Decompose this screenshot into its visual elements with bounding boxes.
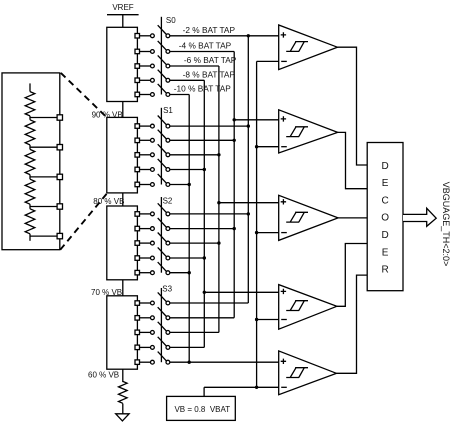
svg-text:C: C (381, 195, 388, 206)
wire (net -2% BAT TAP: S0 row to comparator U1 +) (170, 35, 279, 37)
tap square RB4-1 (135, 301, 151, 306)
wire (U3 output to decoder) (338, 217, 367, 219)
svg-text:S2: S2 (163, 196, 173, 205)
wire (net -6% to comparator U3 +) (219, 202, 279, 204)
tap terminal square (callout tap 1) (57, 115, 62, 120)
svg-text:-4 % BAT TAP: -4 % BAT TAP (179, 41, 232, 51)
tap square RB1-5 (135, 92, 151, 97)
svg-text:D: D (381, 230, 388, 241)
tap square RB4-5 (135, 360, 151, 365)
wire (net -6% BAT TAP: S2 row 3) (170, 242, 219, 244)
wire (VB annotation box riser) (203, 387, 205, 397)
wire (ladder segment) (29, 175, 31, 180)
switch S3-5 (151, 352, 170, 365)
wire (net -8% BAT TAP vertical) (203, 80, 205, 347)
switch S1-1 (151, 116, 170, 129)
switch bank S3 gang bar (160, 288, 162, 362)
wire (callout tap 3) (30, 176, 57, 178)
switch S2-4 (151, 247, 170, 260)
junction dots (188, 34, 259, 389)
tap terminal square (callout tap 4) (57, 204, 62, 209)
svg-text:O: O (381, 213, 389, 224)
tap square RB3-2 (135, 226, 151, 231)
callout detail box (2, 73, 60, 250)
tap square RB4-2 (135, 316, 151, 321)
switch S1-5 (151, 174, 170, 187)
switch S0-4 (151, 70, 170, 83)
svg-text:S3: S3 (162, 285, 172, 294)
svg-text:S0: S0 (166, 16, 176, 25)
switch S2-2 (151, 218, 170, 231)
svg-text:70 % VB: 70 % VB (91, 288, 122, 297)
wire (callout tap 2) (30, 146, 57, 148)
tap square RB4-4 (135, 345, 151, 350)
switch S1-4 (151, 159, 170, 172)
tap square RB1-1 (135, 34, 151, 39)
wire (net -6% BAT TAP: S1 row 3) (170, 154, 219, 156)
wire (net -8% BAT TAP: S3 row 4) (170, 346, 205, 348)
svg-text:-8 % BAT TAP: -8 % BAT TAP (183, 70, 236, 80)
tap terminal square (callout tap 5) (57, 233, 62, 238)
dashed callout line (top) (61, 73, 107, 118)
wire (net -6% BAT TAP: S0 row 3) (170, 65, 219, 67)
wire (resistor to ground arrow) (122, 404, 124, 414)
wire (net -6% BAT TAP: S3 row 3) (170, 331, 219, 333)
wire (ladder top stub) (29, 83, 31, 91)
wire (callout tap 4) (30, 206, 57, 208)
wire (net -4% BAT TAP: S1 row 2) (170, 139, 234, 141)
output arrow VBGUAGE_TH<2:0> (403, 208, 436, 226)
wire (ladder segment) (29, 204, 31, 209)
ground arrow (to VSS) (116, 414, 129, 421)
svg-text:S1: S1 (163, 106, 173, 115)
wire (net -2% BAT TAP: S3 row 1) (170, 302, 249, 304)
wire (VREF block to 90% node) (122, 102, 124, 118)
wire (net -4% BAT TAP: S2 row 2) (170, 228, 234, 230)
svg-text:VREF: VREF (112, 3, 133, 12)
wire (ladder segment) (29, 116, 31, 120)
switch S3-2 (151, 307, 170, 319)
tap terminal square (callout tap 3) (57, 174, 62, 179)
output net label VBGUAGE_TH<2:0> (441, 182, 451, 267)
switch S2-1 (151, 203, 170, 216)
resistor block RB4 (divider segment) (107, 296, 138, 369)
switch bank S2 gang bar (160, 197, 162, 273)
switch S1-3 (151, 144, 170, 157)
comparator U3 (279, 195, 338, 240)
svg-text:-2 % BAT TAP: -2 % BAT TAP (183, 25, 236, 35)
wire (90% to 80% blocks) (122, 193, 124, 206)
wire (net -4% to comparator U2 +) (234, 119, 279, 121)
resistor R1 (callout ladder) (25, 92, 35, 116)
switch S2-3 (151, 233, 170, 246)
VREF supply bar (107, 14, 139, 16)
wire (net -2% BAT TAP: S1 row 1) (170, 125, 249, 127)
annotation VB = 0.8 VBAT (167, 396, 236, 420)
tap square RB2-1 (135, 124, 151, 129)
svg-text:E: E (382, 247, 389, 258)
wire (U4 output to decoder) (337, 244, 367, 307)
tap square RB2-2 (135, 138, 151, 143)
comparator U2 (279, 110, 338, 153)
resistor R2 (callout ladder) (25, 120, 35, 145)
switch S0-3 (151, 55, 170, 68)
svg-text:VBGUAGE_TH<2:0>: VBGUAGE_TH<2:0> (441, 182, 451, 267)
resistor block RB1 (divider segment) (107, 27, 138, 101)
svg-text:-6 % BAT TAP: -6 % BAT TAP (184, 55, 237, 65)
comparator U5 (279, 351, 337, 395)
wire (callout tap 1) (30, 117, 57, 119)
wire (U2 output to decoder) (338, 132, 368, 188)
svg-text:90 % VB: 90 % VB (92, 110, 123, 119)
wire (net -2% BAT TAP vertical) (247, 36, 249, 303)
wire (VB bus to comparator U1 -) (257, 60, 279, 62)
dashed callout line (bottom) (60, 193, 107, 250)
wire (callout tap 5) (30, 235, 57, 237)
wire (U5 output to decoder) (336, 275, 367, 373)
svg-text:R: R (381, 265, 388, 276)
resistor block RB3 (divider segment) (107, 206, 138, 280)
resistor (bottom of divider string) (119, 381, 128, 403)
svg-text:E: E (382, 178, 389, 189)
wire (net -8% BAT TAP: S1 row 4) (170, 169, 205, 171)
tap square RB2-3 (135, 153, 151, 158)
wire (VREF to divider) (122, 15, 124, 28)
wire (U1 output to decoder) (337, 47, 367, 165)
wire (net -4% BAT TAP: S0 row 2) (170, 51, 234, 53)
svg-text:D: D (381, 161, 388, 172)
wire (VB bus to comparator U4 -) (257, 319, 279, 321)
svg-text:60 % VB: 60 % VB (88, 371, 119, 380)
tap square RB3-1 (135, 212, 151, 217)
resistor R3 (callout ladder) (25, 149, 35, 174)
wire (net -10% BAT TAP: S2 row 5) (170, 272, 189, 274)
switch S3-3 (151, 322, 170, 335)
svg-text:-10 % BAT TAP: -10 % BAT TAP (174, 84, 231, 94)
wire (net -10% BAT TAP vertical) (188, 95, 190, 363)
tap square RB3-3 (135, 241, 151, 246)
wire (net -8% BAT TAP: S0 row 4) (170, 79, 205, 81)
comparator U4 (279, 285, 337, 330)
comparator U1 (279, 25, 338, 70)
wire (net -10% / S3 row 5 to comparator U5 +) (170, 361, 279, 363)
switch bank S0 gang bar (160, 17, 162, 95)
switch S3-4 (151, 337, 170, 350)
tap square RB4-3 (135, 330, 151, 335)
tap square RB2-4 (135, 167, 151, 172)
decoder label DECODER (381, 161, 389, 276)
tap square RB1-2 (135, 49, 151, 54)
wire (ladder bottom stub) (29, 234, 31, 241)
switch S1-2 (151, 130, 170, 143)
wire (net -8% BAT TAP: S2 row 4) (170, 257, 205, 259)
resistor R4 (callout ladder) (25, 179, 35, 204)
resistor block RB2 (divider segment) (107, 117, 138, 192)
decoder block (367, 143, 403, 291)
tap square RB3-5 (135, 270, 151, 275)
switch S3-1 (151, 292, 170, 305)
switch S2-5 (151, 262, 170, 275)
wire (VB bus to comparator U3 -) (257, 232, 279, 234)
switch S0-5 (151, 84, 170, 97)
tap square RB1-3 (135, 64, 151, 69)
switch S0-1 (151, 25, 170, 37)
svg-text:80 % VB: 80 % VB (93, 197, 124, 206)
wire (net -2% BAT TAP: S2 row 1) (170, 213, 249, 215)
switch bank S1 gang bar (160, 108, 162, 185)
tap square RB3-4 (135, 256, 151, 260)
wire (VB sense bus vertical) (256, 61, 258, 387)
tap square RB2-5 (135, 182, 151, 187)
wire (ladder segment) (29, 145, 31, 150)
resistor R5 (callout ladder) (25, 209, 35, 234)
wire (net -8% to comparator U4 +) (204, 291, 278, 293)
wire (net -10% BAT TAP: S1 row 5) (170, 184, 189, 186)
switch S0-2 (151, 41, 170, 53)
wire (net -4% BAT TAP vertical) (233, 52, 235, 318)
svg-text:VB = 0.8 VBAT: VB = 0.8 VBAT (174, 405, 230, 414)
wire (net -4% BAT TAP: S3 row 2) (170, 317, 234, 319)
wire (VB source to comparator U5 -) (204, 386, 279, 388)
wire (70% block to bottom resistor) (122, 369, 124, 382)
wire (net -6% BAT TAP vertical) (218, 66, 220, 332)
wire (VB bus to comparator U2 -) (257, 146, 279, 148)
wire (net -10% BAT TAP: S0 row 5) (170, 94, 189, 96)
wire (80% to 70% blocks) (122, 280, 124, 296)
tap terminal square (callout tap 2) (57, 145, 62, 150)
tap square RB1-4 (135, 78, 151, 83)
